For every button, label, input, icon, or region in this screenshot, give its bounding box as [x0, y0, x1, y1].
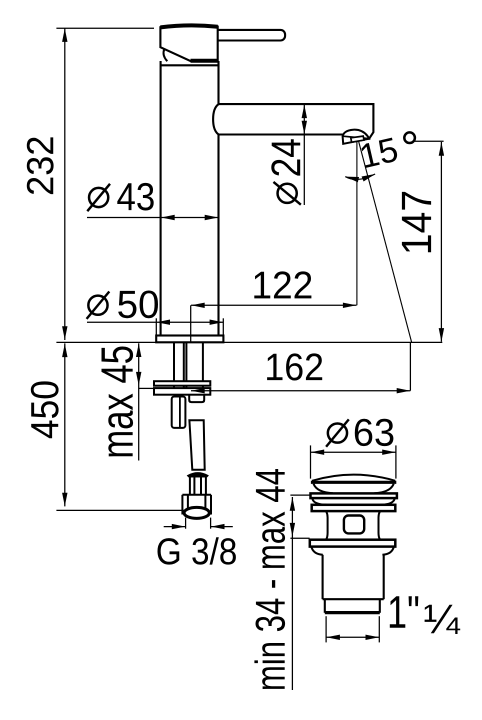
drain threaded end — [324, 599, 326, 613]
drain barrel — [322, 555, 324, 599]
faucet spout — [213, 104, 373, 139]
drain upper flange — [312, 505, 396, 511]
dim 162 — [191, 390, 410, 392]
dim 1 inch 1/4 — [325, 616, 327, 642]
text 15 deg — [360, 137, 399, 168]
dim diam 63 — [311, 451, 396, 453]
dim diam 24 — [303, 104, 305, 205]
dim 450 — [64, 343, 66, 506]
dim diam 50 — [87, 321, 223, 323]
base plate — [156, 336, 223, 343]
G3/8 hose nut — [181, 495, 183, 515]
dim max 45 — [138, 343, 140, 460]
15 deg angle lines — [356, 142, 358, 305]
counter reference line — [56, 341, 442, 343]
dim G 3/8 — [185, 518, 187, 529]
mounting nut — [154, 388, 210, 395]
drain lower flange — [310, 540, 396, 547]
threaded studs and supply shank — [173, 342, 175, 388]
hose ferrule — [189, 476, 191, 495]
dim 147 — [440, 142, 442, 342]
dim 232 — [64, 28, 66, 340]
flexible hose — [189, 420, 204, 470]
drain pop-up cap — [312, 475, 395, 481]
dim min 34 - max 44 — [291, 497, 293, 690]
drain overflow hole — [344, 516, 364, 534]
drain top washer — [311, 493, 397, 498]
dim 122 — [191, 304, 357, 306]
drain waist — [326, 511, 327, 539]
faucet body — [160, 61, 162, 336]
faucet head cap — [160, 25, 217, 61]
threaded stud end — [172, 397, 186, 428]
check valve housing — [189, 392, 204, 402]
hose collar — [188, 473, 208, 477]
dim diam 43 — [87, 217, 218, 219]
horseshoe washer — [154, 381, 210, 386]
spout aerator outlet — [343, 130, 370, 144]
faucet lever handle — [214, 30, 285, 41]
